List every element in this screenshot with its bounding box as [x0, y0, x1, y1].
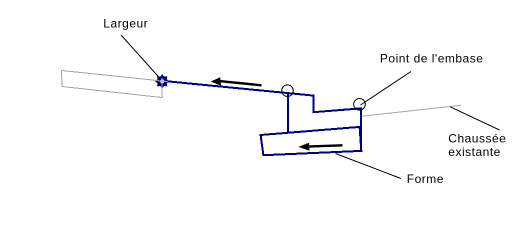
node circle 2 (point de l'embase): [354, 99, 366, 111]
node circle 1: [282, 85, 294, 97]
main axis polyline (navy): [164, 81, 361, 112]
gray corner cross over star: [150, 80, 168, 82]
leader line: Largeur -> star: [121, 35, 161, 79]
bottom arrow (direction, black): [307, 145, 343, 146]
Forme quadrilateral (subgrade): [261, 127, 362, 155]
existing roadway gray line (Chaussée existante): [362, 105, 462, 116]
leader line: Point de l'embase -> circle: [361, 72, 412, 106]
svg-text:Chaussée: Chaussée: [448, 132, 506, 146]
leader line: Chaussée existante -> gray line: [450, 107, 499, 130]
svg-text:Forme: Forme: [407, 172, 444, 186]
svg-text:existante: existante: [448, 145, 501, 159]
vertical drop from first circle: [287, 94, 289, 134]
leader line: Forme -> quad: [336, 154, 402, 179]
existing pavement slab (gray parallelogram): [62, 71, 163, 98]
svg-text:Point de l'embase: Point de l'embase: [380, 52, 484, 66]
svg-text:Largeur: Largeur: [103, 16, 148, 30]
vertical drop from second circle (embase): [360, 107, 362, 151]
top arrow (direction, black): [218, 81, 262, 85]
width grip star marker: [156, 75, 168, 87]
star hollow center: [160, 79, 164, 83]
